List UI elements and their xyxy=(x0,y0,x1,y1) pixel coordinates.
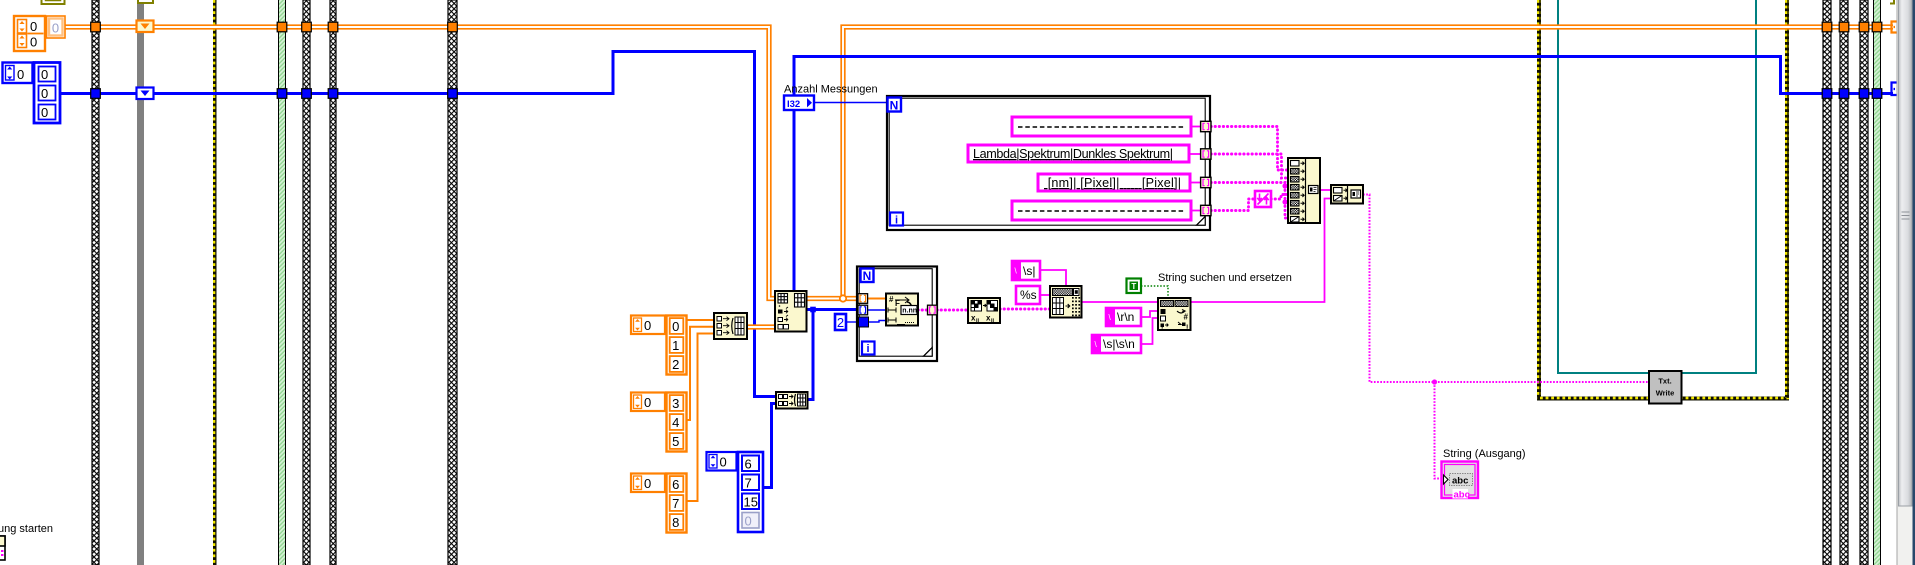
svg-text:0: 0 xyxy=(644,318,651,333)
tunnel orange x1827 xyxy=(1822,22,1832,32)
for loop (big) xyxy=(887,96,1210,230)
orange array constant 3-4-5 xyxy=(631,393,687,452)
svg-text:!: ! xyxy=(1186,325,1188,332)
junction orange open circle xyxy=(840,295,846,301)
tunnel blue x282 xyxy=(277,89,287,99)
tunnel orange x282 xyxy=(277,22,287,32)
case structure left border x1537 xyxy=(1537,0,1541,400)
tunnel blue x95 xyxy=(91,89,101,99)
string constant dashes 2 xyxy=(1012,201,1191,220)
tunnel string-array 3 xyxy=(1201,177,1211,187)
wire orange node out to for loop tunnel xyxy=(806,296,860,301)
wire string %s const to node xyxy=(1040,294,1050,296)
node Txt Write xyxy=(1649,371,1682,404)
svg-text:ij: ij xyxy=(991,318,995,324)
wire string-array conv out xyxy=(1271,195,1290,200)
tunnel orange x1864 xyxy=(1859,22,1869,32)
node cut at left edge xyxy=(0,536,5,560)
svg-text:0: 0 xyxy=(41,105,48,120)
junction pink dot2 xyxy=(1282,199,1287,204)
case structure dashed border x213 xyxy=(213,0,217,565)
sequence border x303 xyxy=(303,0,310,565)
svg-text:0: 0 xyxy=(745,514,752,529)
svg-text:0: 0 xyxy=(17,67,24,82)
svg-text:2: 2 xyxy=(837,315,844,330)
svg-text:I32: I32 xyxy=(787,99,800,110)
node search and replace string xyxy=(1158,298,1191,332)
N terminal (big loop) xyxy=(888,98,902,113)
tunnel orange x95 xyxy=(91,22,101,32)
N terminal (inner loop) xyxy=(861,269,874,284)
svg-text:0: 0 xyxy=(644,476,651,491)
svg-text:6: 6 xyxy=(672,477,679,492)
svg-text:N: N xyxy=(890,99,899,113)
svg-text:String suchen und ersetzen: String suchen und ersetzen xyxy=(1158,272,1292,284)
svg-text:5: 5 xyxy=(672,434,679,449)
boolean constant cut at top edge xyxy=(42,0,65,4)
svg-text:n.nn: n.nn xyxy=(902,308,917,315)
indicator String (Ausgang) xyxy=(1442,462,1479,501)
svg-text:Anzahl Messungen: Anzahl Messungen xyxy=(784,84,878,96)
case structure right border x1785 xyxy=(1785,0,1789,398)
node number to fractional string xyxy=(886,294,918,326)
tunnel orange x333 xyxy=(328,22,338,32)
string constant \s|\s\n xyxy=(1092,335,1141,353)
tunnel orange x306 xyxy=(302,22,312,32)
wire string-array tunnel4 xyxy=(1211,199,1255,211)
tunnel blue x452 xyxy=(448,89,458,99)
wire blue branch down x813 xyxy=(807,310,813,400)
svg-text:Txt.: Txt. xyxy=(1658,377,1671,386)
tunnel blue x1864 xyxy=(1859,89,1869,99)
node array to spreadsheet string xyxy=(1050,286,1082,318)
svg-text:2: 2 xyxy=(672,357,679,372)
svg-text:T: T xyxy=(1131,282,1136,291)
svg-text:8: 8 xyxy=(672,515,679,530)
tunnel blue x1844 xyxy=(1839,89,1849,99)
wire string concat to concat2 xyxy=(1320,189,1331,191)
svg-text:0: 0 xyxy=(672,319,679,334)
blue array constant index xyxy=(3,63,33,84)
svg-text:1: 1 xyxy=(672,338,679,353)
tunnel orange x1844 xyxy=(1839,22,1849,32)
i terminal (big loop) xyxy=(890,213,903,227)
tunnel orange [] inner loop xyxy=(858,294,868,304)
numeric constant 2 xyxy=(835,314,846,330)
wire orange array1 to build array xyxy=(686,319,714,321)
node transpose 2D array xyxy=(968,298,1000,324)
case structure bottom border xyxy=(1537,397,1789,401)
svg-text:i: i xyxy=(866,343,869,355)
wire blue B right side xyxy=(794,57,1893,293)
tunnel orange cut bracket xyxy=(1892,22,1898,33)
svg-text:ung starten: ung starten xyxy=(0,523,53,535)
string constant \s| xyxy=(1012,261,1040,280)
svg-text:#: # xyxy=(1184,313,1189,322)
svg-text:\s|: \s| xyxy=(1023,264,1035,278)
wire string-array inner loop node to tunnel xyxy=(918,309,928,312)
svg-text:i: i xyxy=(895,215,898,227)
svg-text:15: 15 xyxy=(744,495,758,510)
svg-text:0: 0 xyxy=(644,395,651,410)
tunnel blue solid inner loop xyxy=(859,317,869,327)
wire string const1 to tunnel xyxy=(1191,126,1201,128)
wire string const3 to tunnel xyxy=(1190,182,1201,184)
svg-text:N: N xyxy=(863,269,872,283)
svg-text:7: 7 xyxy=(745,476,752,491)
shift register orange xyxy=(137,21,154,33)
wire string-array tunnel2 xyxy=(1211,154,1290,178)
olive cap on gray border xyxy=(138,0,153,3)
svg-text:String (Ausgang): String (Ausgang) xyxy=(1443,448,1526,460)
svg-text:0: 0 xyxy=(41,86,48,101)
wire string search out up to concat2 xyxy=(1190,199,1331,303)
tunnel string-array 2 xyxy=(1201,149,1211,159)
tunnel orange x1877 xyxy=(1872,22,1882,32)
svg-text:0: 0 xyxy=(41,67,48,82)
tunnel blue x333 xyxy=(328,89,338,99)
wire string-array tunnel3 xyxy=(1211,183,1290,219)
sequence border x1840 xyxy=(1840,0,1848,565)
shift register blue xyxy=(137,88,154,100)
wire string \s| const to node xyxy=(1040,270,1066,286)
wire string-array transpose to spreadsheet xyxy=(1000,308,1050,311)
wire string to indicator xyxy=(1435,382,1444,479)
wire string-array inner loop to transpose xyxy=(937,309,968,312)
node concatenate strings 2 xyxy=(1331,185,1363,204)
string constant header xyxy=(968,145,1189,162)
svg-text:0: 0 xyxy=(52,21,59,36)
node build array 3in xyxy=(714,313,747,339)
svg-text:6: 6 xyxy=(745,457,752,472)
teal decoration rectangle xyxy=(1558,0,1756,373)
olive corner mark top right xyxy=(1890,0,1894,4)
wire boolean T dotted xyxy=(1141,286,1168,297)
tunnel string-array 4 xyxy=(1201,205,1211,215)
wire string const2 to tunnel xyxy=(1189,153,1201,155)
orange array constant 0-1-2 xyxy=(631,316,687,375)
wire tunnel to node in3 xyxy=(869,321,886,323)
wire string \s|\s\n to search node xyxy=(1141,318,1158,344)
wire blue array to build array 2 xyxy=(763,404,776,488)
junction pink dot3 xyxy=(1432,379,1437,384)
string constant %s xyxy=(1016,286,1040,304)
svg-text:abc: abc xyxy=(1452,476,1468,487)
sequence border x1823 xyxy=(1823,0,1831,565)
wire string-array tunnel1 xyxy=(1211,127,1290,171)
scrollbar xyxy=(1897,0,1915,565)
svg-text:\s|\s\n: \s|\s\n xyxy=(1103,337,1135,351)
numeric constant I32 xyxy=(784,96,814,111)
junction blue dot xyxy=(810,307,816,313)
tunnel string-array 1 xyxy=(1201,121,1211,131)
sequence border x448 xyxy=(448,0,457,565)
diagram disable hatched border x1873 xyxy=(1873,0,1881,565)
tunnel blue x1877 xyxy=(1872,89,1882,99)
tunnel orange x452 xyxy=(448,22,458,32)
svg-text:Lambda|Spektrum|Dunkles Spektr: Lambda|Spektrum|Dunkles Spektrum| xyxy=(973,147,1173,161)
svg-text:7: 7 xyxy=(672,496,679,511)
wire blue node out to for loop xyxy=(806,308,860,311)
blue array constant elements xyxy=(34,63,60,124)
wire orange array2 to build array xyxy=(684,327,714,420)
svg-text:!: ! xyxy=(1161,325,1163,332)
wire 2 to tunnel xyxy=(846,321,860,323)
tunnel blue cut bracket xyxy=(1892,83,1898,96)
svg-text:0: 0 xyxy=(30,35,37,50)
svg-text:%s: %s xyxy=(1020,288,1037,302)
wire string const4 to tunnel xyxy=(1191,210,1201,212)
svg-text:\r\n: \r\n xyxy=(1117,310,1134,324)
wire orange 2D array main A xyxy=(64,27,775,299)
svg-text:[nm]| [Pixel]| [Pixel]|: [nm]| [Pixel]| [Pixel]| xyxy=(1044,176,1181,190)
tunnel blue x1827 xyxy=(1822,89,1832,99)
wire I32 to N xyxy=(813,102,887,104)
node concatenate strings xyxy=(1288,158,1320,223)
for loop (inner) xyxy=(857,267,937,362)
boolean constant T xyxy=(1127,279,1142,294)
svg-text:Write: Write xyxy=(1656,389,1675,398)
svg-text:4: 4 xyxy=(672,415,679,430)
i terminal (inner loop) xyxy=(862,342,875,356)
wire orange array3 to build array xyxy=(686,334,714,502)
node number to decimal string xyxy=(1255,191,1271,207)
svg-text:#: # xyxy=(889,295,894,304)
svg-text:ij: ij xyxy=(976,318,980,324)
wire string spreadsheet out xyxy=(1081,301,1158,303)
while loop gray border x137 xyxy=(137,0,144,565)
tunnel blue [] inner loop xyxy=(858,305,868,315)
string constant units xyxy=(1038,174,1190,191)
string constant \r\n xyxy=(1106,308,1141,326)
wire blue main from array xyxy=(60,52,776,397)
flat sequence border (checkered) x92 xyxy=(92,0,99,565)
svg-text:abc: abc xyxy=(1454,490,1470,501)
wire blue tunnel to node in2 xyxy=(867,309,886,311)
node build array 2in xyxy=(776,392,808,409)
junction pink dot1 xyxy=(1282,183,1287,188)
diagram disable hatched border x278 xyxy=(278,0,286,565)
wire orange tunnel to node in1 xyxy=(867,298,886,300)
blue array constant 6-7-15 xyxy=(707,452,764,532)
wire orange B to right structures xyxy=(843,27,1893,299)
wire string \r\n to search node xyxy=(1141,311,1158,317)
node reshape array xyxy=(775,291,807,332)
string constant dashes 1 xyxy=(1012,117,1191,136)
orange 2D array constant xyxy=(14,16,45,51)
wire string concat2 out long xyxy=(1363,195,1649,383)
orange 2D array element box xyxy=(47,16,66,38)
tunnel blue x306 xyxy=(302,89,312,99)
sequence border x1860 xyxy=(1860,0,1868,565)
wire orange build array out xyxy=(747,324,775,329)
svg-text:0: 0 xyxy=(30,19,37,34)
sequence border x330 xyxy=(330,0,336,565)
orange array constant 6-7-8 xyxy=(631,474,687,533)
svg-text:3: 3 xyxy=(672,396,679,411)
svg-text:0: 0 xyxy=(720,455,727,470)
tunnel string out inner loop xyxy=(928,305,938,315)
